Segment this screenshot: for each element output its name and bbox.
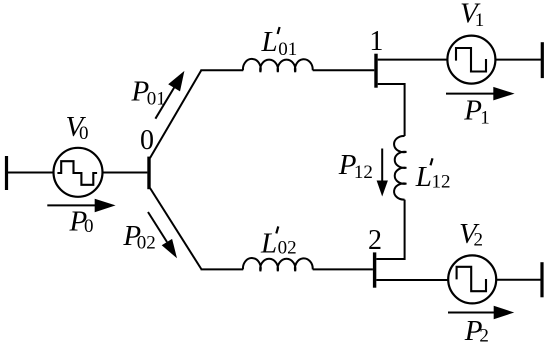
wire V0 to node 0 (103, 172, 148, 174)
source V1 circle (447, 36, 495, 84)
terminal bar right bottom (540, 262, 543, 297)
wire top horizontal left (200, 69, 243, 71)
arrow P12 (381, 149, 383, 183)
source V0 circle (54, 148, 103, 197)
svg-text:01: 01 (147, 89, 166, 110)
svg-text:L: L (415, 161, 432, 193)
svg-text:0: 0 (140, 125, 154, 156)
wire top horizontal right (313, 69, 375, 71)
V1 waveform (456, 48, 486, 72)
arrow P1 (446, 93, 496, 95)
arrow P02 (148, 212, 167, 242)
wire diagonal 0 to top corner (150, 70, 201, 158)
bus node 1 (374, 54, 377, 88)
inductor L02 coil (243, 258, 313, 271)
svg-text:01: 01 (278, 39, 297, 60)
arrow P01 (155, 85, 176, 119)
svg-text:0: 0 (79, 123, 89, 144)
inductor L12 coil vertical (394, 136, 406, 200)
svg-text:0: 0 (84, 216, 94, 237)
source V2 circle (448, 255, 496, 303)
terminal bar right top (541, 42, 544, 78)
svg-text:L: L (260, 227, 277, 259)
svg-text:1: 1 (369, 26, 383, 57)
V2 waveform (457, 267, 486, 291)
svg-text:2: 2 (479, 326, 489, 345)
svg-text:02: 02 (278, 238, 297, 259)
V0 waveform (57, 161, 97, 185)
bus node 0 (147, 157, 150, 190)
svg-text:1: 1 (480, 108, 490, 129)
wire bus2 to V2 (376, 279, 448, 281)
wire bottom horizontal right (313, 268, 373, 270)
wire V1 to right terminal (495, 59, 542, 61)
bus node 2 (373, 252, 376, 287)
wire bus1 to V1 (378, 59, 448, 61)
arrow P2 (448, 312, 496, 314)
svg-text:1: 1 (475, 10, 485, 31)
wire terminal to V0 (7, 172, 55, 174)
wire V2 to right terminal (496, 279, 542, 281)
svg-text:2: 2 (368, 225, 382, 256)
wire L12 to node 2 (376, 200, 404, 259)
terminal bar left (5, 156, 8, 190)
svg-text:L: L (261, 26, 278, 58)
inductor L01 coil (243, 59, 313, 72)
wire diagonal 0 to bottom corner (150, 188, 202, 269)
svg-text:02: 02 (137, 233, 156, 254)
svg-text:2: 2 (474, 230, 484, 251)
svg-text:12: 12 (354, 162, 373, 183)
wire bottom horizontal left (201, 268, 244, 270)
arrow P0 (47, 204, 97, 206)
svg-text:12: 12 (432, 171, 451, 192)
svg-text:P: P (463, 94, 482, 126)
wire bus1 L-shape down to L12 (378, 84, 405, 136)
